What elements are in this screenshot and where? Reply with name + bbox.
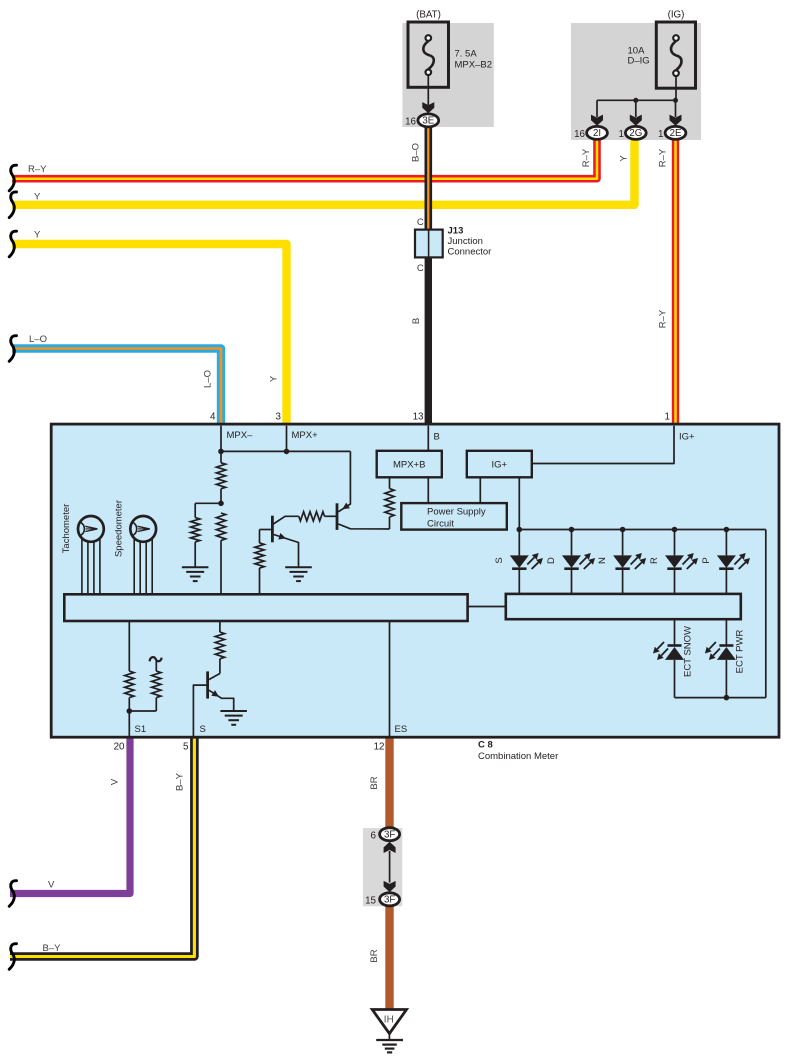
svg-text:B–O: B–O (411, 143, 422, 162)
break symbol Y upper (9, 192, 16, 218)
resistor R6 to MPX+B (385, 489, 394, 517)
svg-text:ES: ES (395, 724, 408, 735)
wire MPX+B to PSC (427, 477, 429, 503)
junction dot MPX+ (284, 449, 290, 455)
svg-text:R–Y: R–Y (657, 148, 668, 167)
svg-text:3: 3 (276, 412, 282, 423)
LED P (725, 530, 727, 556)
svg-text:Y: Y (34, 192, 41, 203)
svg-text:D: D (546, 557, 557, 564)
resistor R4 base of Q1 (255, 543, 264, 568)
wire BR from ES to ground (385, 736, 393, 835)
svg-text:R–Y: R–Y (657, 309, 668, 328)
svg-text:IG+: IG+ (492, 459, 508, 470)
wire L-O to MPX- (12, 349, 221, 427)
resistor R7 (125, 671, 134, 698)
svg-text:S: S (494, 557, 505, 563)
junction dot S1 (127, 708, 133, 714)
svg-text:V: V (110, 778, 121, 785)
svg-text:Y: Y (268, 375, 279, 382)
wire R-Y horizontal (12, 138, 597, 179)
junction dot ECT PWR (724, 695, 730, 701)
svg-text:IH: IH (384, 1015, 394, 1026)
resistor R3 (216, 513, 225, 540)
svg-text:MPX+: MPX+ (292, 430, 319, 441)
junction dot 2E branch (673, 98, 678, 103)
break symbol B-Y (9, 944, 16, 970)
svg-text:D–IG: D–IG (628, 56, 650, 67)
wire R-Y from 2E to IG+ (672, 138, 679, 426)
pin MPX+ lead (286, 426, 288, 452)
fuse 7.5A MPX-B2 (408, 22, 449, 87)
wire IG+ to PSC (479, 477, 481, 503)
break symbol L-O (9, 336, 16, 362)
svg-text:1: 1 (619, 129, 624, 140)
LED ECT SNOW (674, 619, 676, 645)
Q3 collector (209, 674, 220, 680)
junction dot LED P (724, 527, 730, 533)
svg-text:MPX+B: MPX+B (393, 459, 425, 470)
block Power Supply Circuit (401, 503, 507, 529)
junction dot LED N (620, 527, 626, 533)
fuse block (IG) background (571, 23, 701, 140)
svg-text:R: R (649, 557, 660, 564)
svg-text:C: C (417, 263, 424, 274)
ground G2 (285, 566, 312, 568)
connector 2E (665, 126, 686, 139)
wire S1 column (128, 621, 130, 671)
resistor R9 (219, 621, 221, 632)
svg-text:C 8: C 8 (478, 740, 493, 751)
svg-text:B–Y: B–Y (43, 943, 62, 954)
svg-text:ECT PWR: ECT PWR (735, 630, 746, 674)
wire to R2 (195, 502, 221, 504)
svg-text:Speedometer: Speedometer (114, 500, 125, 557)
ground IH stem (388, 1034, 390, 1040)
break symbol Y lower (9, 231, 16, 257)
gauge Speedometer (130, 516, 156, 542)
wire B-Y from S (10, 736, 194, 957)
svg-text:B: B (434, 432, 440, 443)
arrow into 2I (591, 115, 603, 126)
svg-text:3E: 3E (422, 116, 434, 127)
Q3 emitter (209, 690, 234, 711)
arrow into 2E (670, 115, 682, 126)
svg-text:3F: 3F (384, 895, 395, 906)
svg-text:Connector: Connector (448, 247, 492, 258)
LED S (518, 530, 520, 556)
pin MPX- lead (220, 426, 222, 452)
Q3 base (193, 685, 206, 736)
connector 3F background (363, 828, 402, 906)
svg-text:Power Supply: Power Supply (427, 507, 486, 518)
Q2 collector (338, 524, 389, 529)
svg-text:1: 1 (658, 129, 663, 140)
svg-text:3F: 3F (384, 830, 395, 841)
arrow into 3E (422, 102, 434, 113)
wire fuse to splitter (675, 77, 677, 101)
wire fuse to 3E (427, 76, 429, 105)
svg-text:(BAT): (BAT) (416, 10, 441, 21)
connector 3F upper (380, 828, 400, 841)
svg-text:1: 1 (665, 412, 670, 423)
ground IH triangle (372, 1010, 406, 1034)
svg-text:MPX–B2: MPX–B2 (455, 60, 493, 71)
svg-text:B–Y: B–Y (175, 772, 186, 791)
fuse 10A D-IG (656, 22, 695, 88)
svg-text:N: N (597, 557, 608, 564)
resistor R5 Q1-Q2 (299, 512, 325, 521)
junction dot LED R (672, 527, 678, 533)
junction dot R1 bottom (218, 501, 224, 507)
pin IG+ lead (532, 426, 674, 464)
block IG+ (467, 451, 532, 478)
svg-text:2E: 2E (670, 128, 682, 139)
break symbol R-Y (9, 165, 16, 191)
LED supply rail (519, 529, 766, 531)
svg-text:S: S (200, 724, 206, 735)
svg-text:Tachometer: Tachometer (61, 504, 72, 554)
pickup coil hook (150, 657, 162, 661)
svg-text:BR: BR (369, 776, 380, 789)
arrow up into 3F (384, 842, 396, 853)
LED R (674, 530, 676, 556)
LED D (571, 530, 573, 556)
junction dot MPX- (218, 449, 224, 455)
right side rail (765, 530, 767, 698)
arrow down into 3F (384, 881, 396, 892)
combination meter C8 box (51, 424, 779, 737)
svg-text:5: 5 (183, 742, 189, 753)
svg-text:MPX–: MPX– (227, 430, 254, 441)
pin B lead (427, 426, 429, 451)
svg-text:16: 16 (405, 117, 416, 128)
svg-text:Combination Meter: Combination Meter (478, 751, 558, 762)
wire MPX rail (221, 450, 350, 452)
ECT bottom rail (675, 697, 766, 699)
junction connector J13 (415, 230, 443, 258)
svg-text:BR: BR (369, 949, 380, 962)
fuse block (BAT) background (402, 23, 493, 127)
LED ECT PWR (725, 619, 727, 645)
svg-text:(IG): (IG) (668, 10, 685, 21)
svg-text:Junction: Junction (448, 236, 483, 247)
junction dot LED D (569, 527, 575, 533)
transistor Q1 base (260, 529, 272, 531)
svg-text:V: V (48, 880, 55, 891)
Q1 collector (273, 516, 299, 524)
Q1 emitter (274, 535, 299, 568)
svg-text:R–Y: R–Y (28, 164, 47, 175)
wire V from S1 (10, 736, 130, 894)
svg-text:C: C (417, 217, 424, 228)
wire B-O from 3E to J13 (424, 126, 432, 231)
LED N (622, 530, 624, 556)
ground G1 (182, 566, 209, 568)
svg-text:ECT SNOW: ECT SNOW (683, 626, 694, 677)
arrow into 2G (630, 115, 642, 126)
svg-text:P: P (701, 557, 712, 563)
break symbol V (9, 881, 16, 907)
svg-text:12: 12 (374, 742, 385, 753)
svg-text:7. 5A: 7. 5A (455, 49, 478, 60)
svg-text:15: 15 (365, 896, 376, 907)
connector 3E (418, 114, 439, 127)
wire IG+ to LED rail (518, 477, 520, 529)
bus bar 2 (506, 594, 741, 619)
junction dot LED S (517, 527, 523, 533)
svg-text:L–O: L–O (29, 334, 47, 345)
connector 2I (587, 126, 608, 139)
svg-text:Y: Y (34, 230, 41, 241)
junction dot 2G branch (633, 98, 638, 103)
connector 3F lower (380, 893, 400, 906)
svg-text:Y: Y (618, 155, 629, 162)
wire between 3F (389, 851, 391, 883)
transistor Q2 bar (336, 503, 339, 530)
ground IH hatch (376, 1039, 403, 1041)
svg-text:13: 13 (413, 412, 424, 423)
svg-text:R–Y: R–Y (581, 148, 592, 167)
svg-text:J13: J13 (448, 226, 464, 237)
svg-text:2I: 2I (593, 128, 601, 139)
bus link (468, 606, 506, 608)
svg-text:2G: 2G (629, 128, 642, 139)
svg-text:B: B (411, 318, 422, 324)
resistor R2 (191, 518, 200, 542)
Q2 emitter from MPX rail (338, 451, 350, 511)
wire Y horizontal upper (12, 138, 635, 205)
transistor Q3 bar (206, 671, 209, 698)
gauge Tachometer (78, 516, 104, 542)
resistor R8 (152, 671, 161, 698)
resistor R1 (216, 463, 225, 489)
svg-text:L–O: L–O (202, 370, 213, 388)
svg-text:IG+: IG+ (679, 432, 695, 443)
svg-text:4: 4 (210, 412, 216, 423)
svg-text:S1: S1 (135, 724, 147, 735)
wire Y to MPX+ (12, 244, 287, 426)
block MPX+B (377, 451, 442, 478)
bus bar 1 (64, 594, 467, 621)
connector 2G (625, 126, 646, 139)
svg-text:16: 16 (574, 129, 585, 140)
wire ES column (389, 621, 391, 736)
svg-text:6: 6 (371, 831, 377, 842)
wire B from J13 to pin 13 (425, 256, 432, 426)
svg-text:Circuit: Circuit (427, 519, 454, 530)
svg-text:20: 20 (114, 742, 125, 753)
ground G3 (220, 710, 247, 712)
